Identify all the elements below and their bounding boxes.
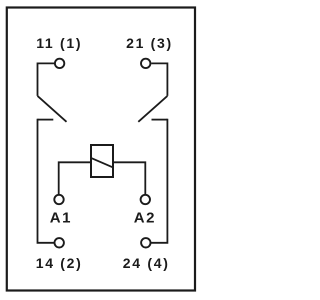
contact blade 21-24 — [138, 96, 167, 122]
fixed contact 24 — [152, 119, 168, 121]
relay coil body — [91, 145, 113, 177]
terminal 21 circle — [141, 59, 150, 68]
wire 24 vertical — [151, 119, 168, 243]
border frame (decorative) — [7, 8, 195, 291]
coil diagonal — [91, 158, 113, 168]
svg-text:A2: A2 — [134, 210, 156, 227]
wire 21 terminal to blade pivot — [151, 63, 167, 96]
terminal 14 circle — [55, 238, 64, 247]
svg-text:11 (1): 11 (1) — [36, 35, 82, 51]
terminal A2 circle — [141, 195, 150, 204]
svg-text:A1: A1 — [50, 210, 72, 227]
wire coil to A1 — [59, 162, 91, 194]
terminal 24 circle — [141, 238, 150, 247]
svg-text:14 (2): 14 (2) — [36, 255, 83, 271]
contact blade 11-14 — [38, 96, 67, 122]
svg-text:24 (4): 24 (4) — [123, 255, 170, 271]
terminal A1 circle — [54, 195, 63, 204]
wire 11 terminal to blade pivot — [38, 63, 55, 96]
fixed contact 14 — [38, 119, 54, 121]
svg-text:21 (3): 21 (3) — [126, 35, 173, 51]
terminal 11 circle — [55, 59, 64, 68]
wire 14 vertical — [38, 119, 55, 243]
wire coil to A2 — [113, 162, 145, 194]
